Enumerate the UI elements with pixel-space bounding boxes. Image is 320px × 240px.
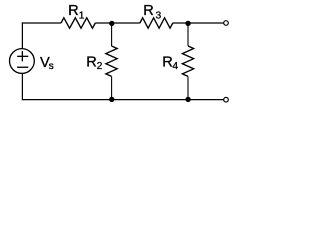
svg-text:4: 4 (172, 61, 178, 72)
wire R2 upper lead (111, 23, 113, 46)
resistor R4 (182, 46, 193, 76)
svg-text:1: 1 (79, 11, 85, 22)
terminal bottom-right (open) (224, 97, 229, 102)
resistor R1 (61, 18, 95, 28)
node C (bottom of R2) (109, 97, 114, 102)
node A (top of R2) (109, 21, 114, 26)
wire R4 lower lead (187, 76, 189, 99)
node B (top of R4) (185, 21, 190, 26)
wire R4 upper lead (187, 23, 189, 46)
terminal top-right (open) (224, 21, 229, 26)
svg-text:3: 3 (156, 11, 162, 22)
wire top rail left segment (corner to R1) (22, 22, 61, 24)
resistor R2 (106, 46, 117, 76)
svg-text:R: R (143, 3, 154, 19)
wire R2 lower lead (111, 76, 113, 99)
wire left vertical lower (Vs bottom to corner) (21, 74, 23, 100)
voltage source Vs circle (10, 49, 35, 74)
label R3 (143, 3, 161, 22)
svg-text:2: 2 (97, 61, 103, 72)
wire top rail middle segment (R1 to R3 through node A) (95, 22, 140, 24)
label R2 (86, 54, 102, 72)
resistor R3 (140, 18, 173, 28)
label Vs (40, 55, 54, 72)
wire bottom rail (22, 99, 224, 101)
svg-text:R: R (162, 54, 173, 70)
label R4 (162, 54, 178, 72)
svg-text:s: s (49, 61, 54, 72)
wire left vertical upper (corner to Vs top) (21, 22, 23, 48)
node D (bottom of R4) (185, 97, 190, 102)
voltage source plus sign (17, 51, 28, 61)
svg-text:R: R (68, 3, 79, 19)
wire top rail right segment (R3 to top terminal through node B) (173, 22, 224, 24)
svg-text:R: R (86, 54, 97, 70)
voltage source minus sign (17, 66, 28, 68)
label R1 (68, 3, 85, 22)
